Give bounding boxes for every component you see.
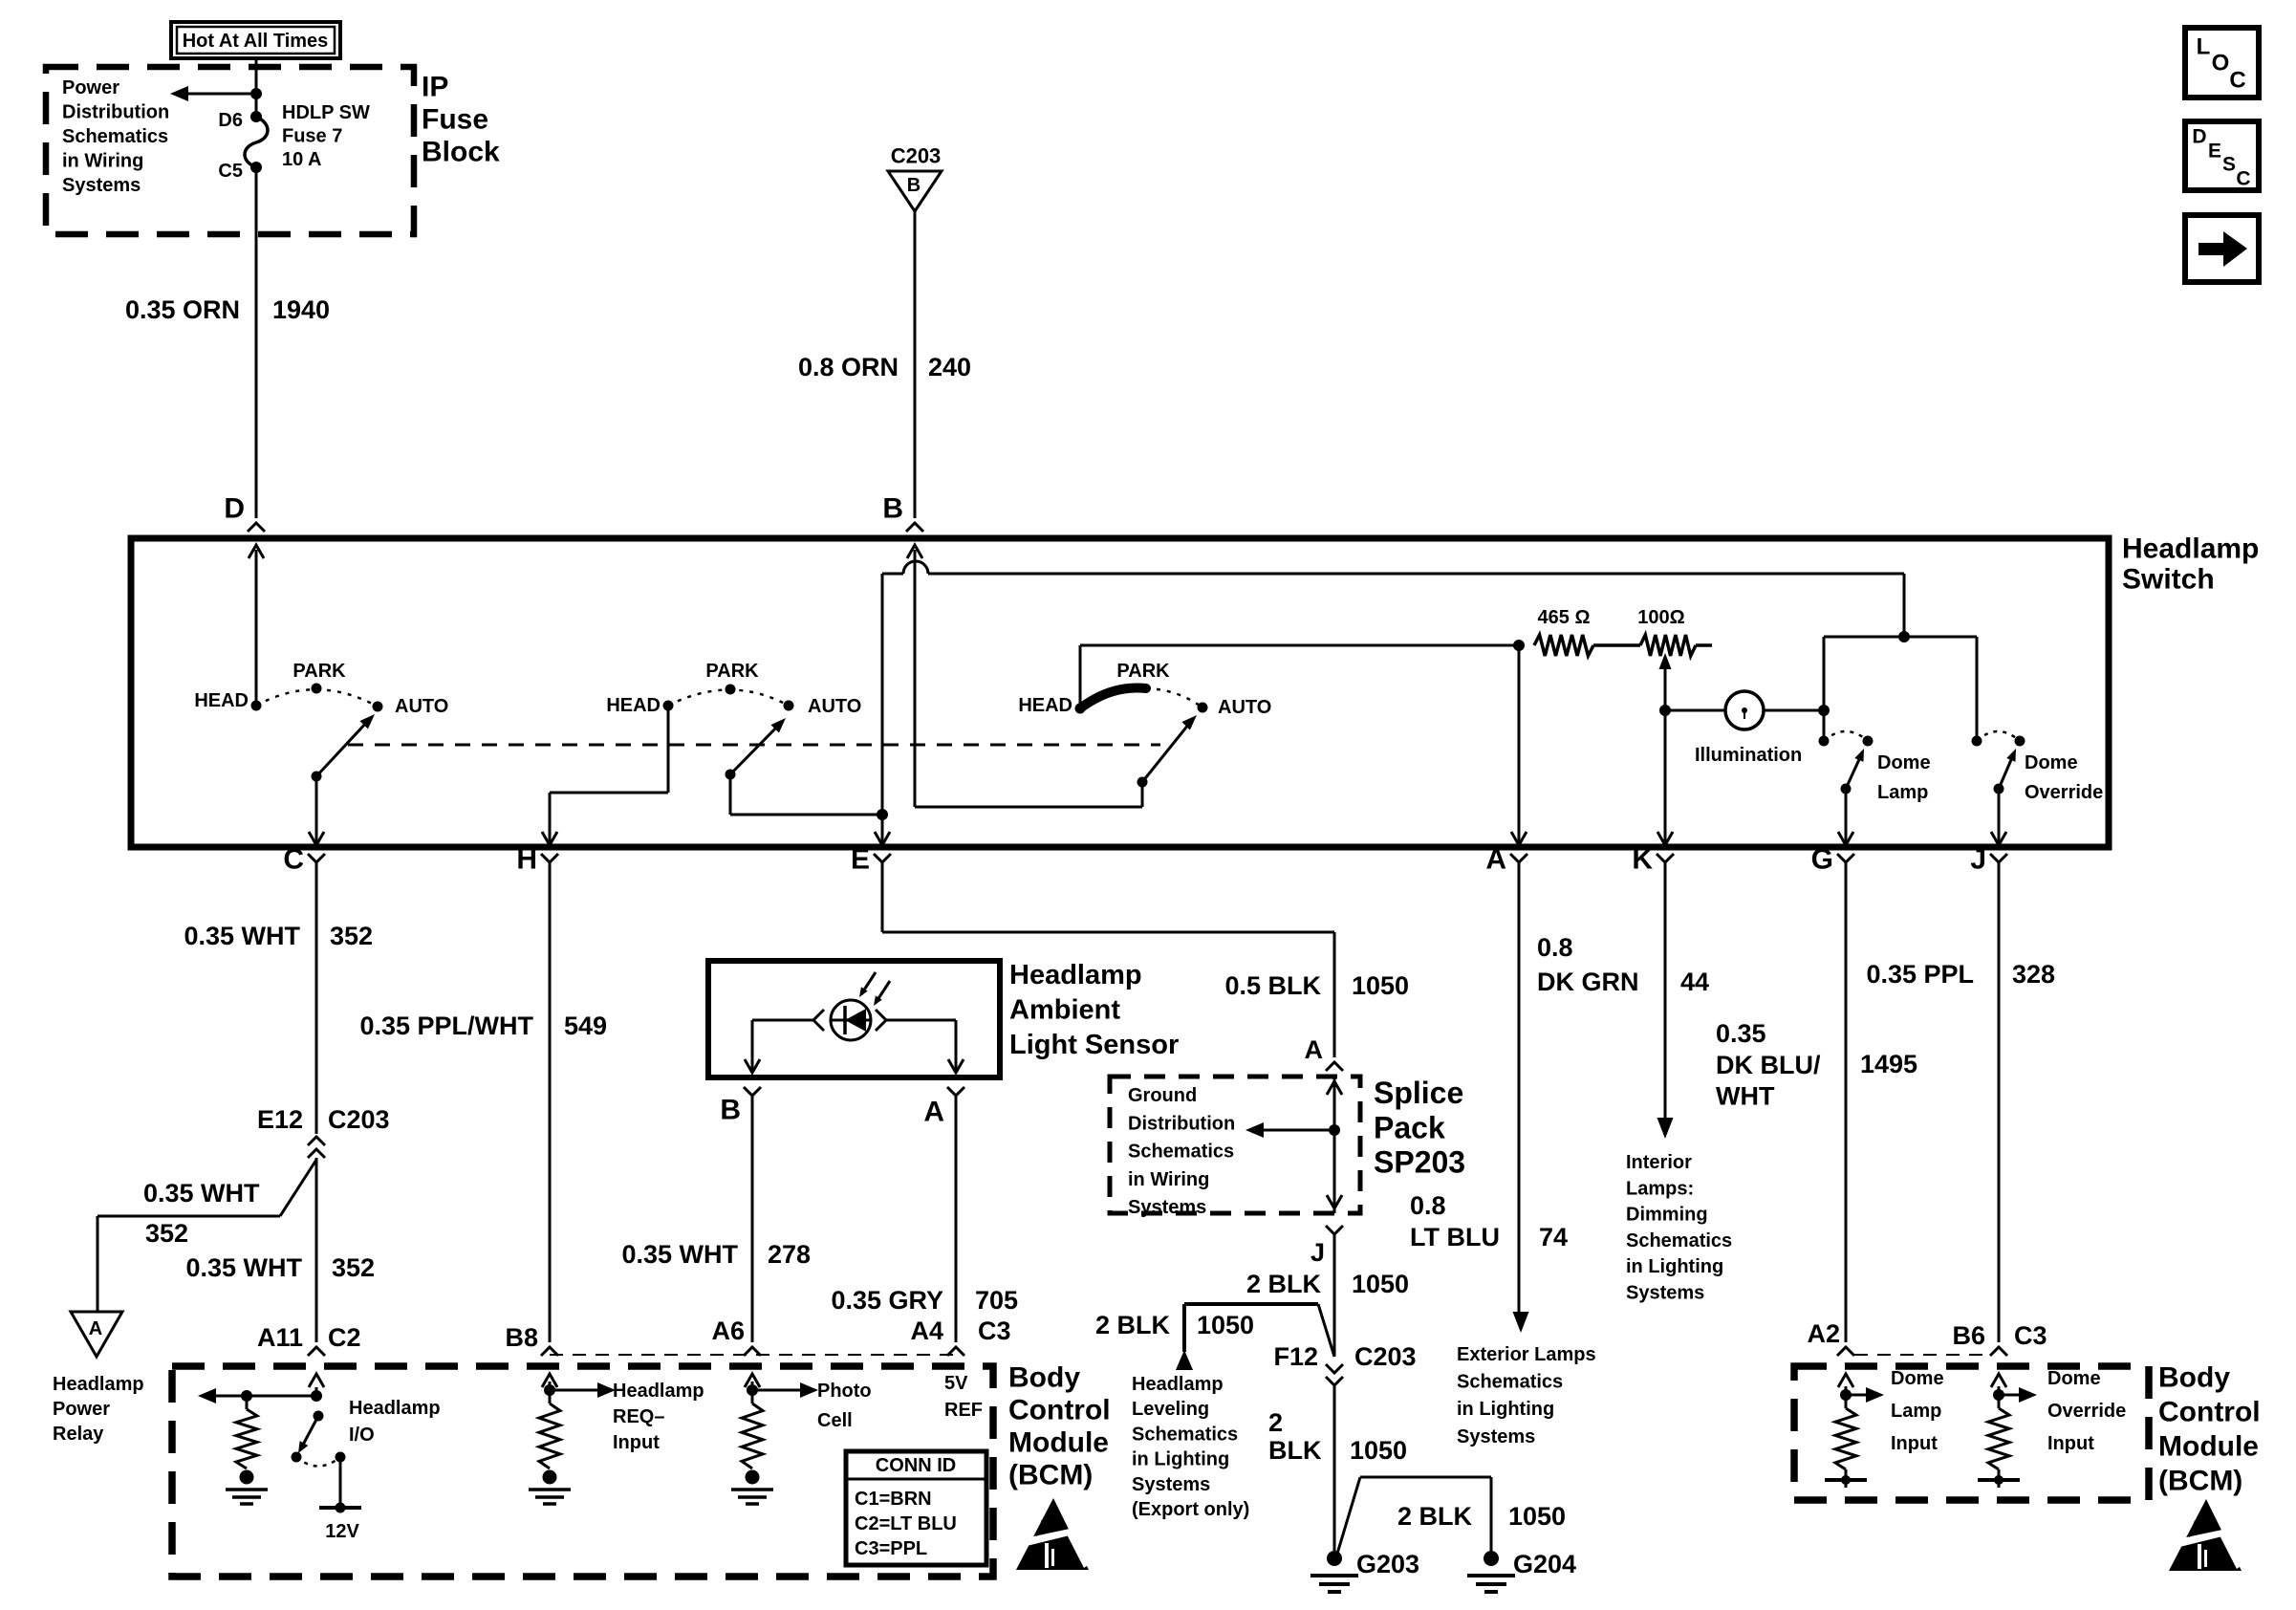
- IP Fuse Block dashed box: [46, 67, 414, 234]
- svg-text:Dome: Dome: [2047, 1368, 2101, 1389]
- junction: pull resistor tap: [241, 1390, 252, 1402]
- svg-text:Fuse: Fuse: [422, 104, 488, 136]
- svg-text:H: H: [516, 844, 537, 876]
- junction: headlamp I/O node: [311, 1390, 322, 1402]
- svg-text:BLK: BLK: [1268, 1436, 1322, 1465]
- pin C of headlamp switch: [308, 854, 325, 862]
- pin H of headlamp switch: [541, 854, 558, 862]
- svg-text:0.35: 0.35: [1716, 1019, 1766, 1048]
- junction: REQ node: [544, 1384, 555, 1396]
- dome override switch right contact: [2015, 736, 2025, 747]
- rheostat wiper arrow: [1664, 662, 1667, 710]
- svg-text:0.35 GRY: 0.35 GRY: [831, 1286, 943, 1315]
- svg-text:Control: Control: [2158, 1397, 2261, 1428]
- junction: pin A tap: [1513, 640, 1525, 651]
- sensor pin B: [744, 1087, 761, 1096]
- resistor 465 ohm: [1534, 635, 1593, 656]
- svg-text:B: B: [907, 175, 921, 196]
- switch 1 position arc: [256, 689, 378, 707]
- wire: pin G drop: [1845, 789, 1848, 843]
- svg-text:D6: D6: [218, 110, 243, 131]
- svg-text:HEAD: HEAD: [194, 690, 249, 711]
- branch: headlamp leveling stub: [1184, 1302, 1318, 1306]
- connector boundary dash line, right: [1854, 1354, 1990, 1356]
- svg-text:AUTO: AUTO: [395, 696, 448, 717]
- dome lamp switch arc: [1824, 731, 1868, 741]
- switch 1 HEAD contact: [251, 701, 262, 711]
- pin B of headlamp switch: [906, 523, 923, 532]
- svg-text:AUTO: AUTO: [808, 696, 861, 717]
- wire 1940: 0.35 ORN from fuse C5 to headlamp switch pin D: [255, 167, 258, 518]
- svg-text:328: 328: [2012, 960, 2055, 989]
- svg-text:352: 352: [330, 922, 373, 950]
- svg-text:Dome: Dome: [1877, 752, 1931, 773]
- svg-text:0.35 WHT: 0.35 WHT: [185, 1253, 302, 1282]
- svg-text:Pack: Pack: [1374, 1110, 1445, 1144]
- junction: wiper / illumination lamp node: [1659, 705, 1671, 716]
- svg-text:Schematics: Schematics: [1128, 1142, 1234, 1163]
- svg-text:0.8: 0.8: [1410, 1191, 1446, 1220]
- svg-text:C5: C5: [218, 161, 243, 182]
- wire 74: 0.8 LT BLU from pin A to exterior lamps: [1518, 862, 1521, 1314]
- headlamp switch SW1 enclosure: [131, 538, 2109, 847]
- svg-text:Switch: Switch: [2122, 564, 2215, 596]
- BCM headlamp REQ input: [549, 1382, 552, 1390]
- pin B6/C3 of BCM: [1990, 1347, 2007, 1356]
- wire 352 continues below C203: [315, 1158, 318, 1342]
- splice bus SP203: [1333, 1077, 1336, 1213]
- svg-text:A: A: [923, 1097, 944, 1128]
- svg-text:1050: 1050: [1352, 971, 1409, 1000]
- svg-text:O: O: [2212, 51, 2230, 76]
- wire: battery feed into fuse block: [255, 58, 258, 117]
- ground G204: [1484, 1551, 1499, 1566]
- svg-text:1940: 1940: [272, 295, 330, 324]
- svg-text:C203: C203: [328, 1105, 390, 1134]
- wire 1495: 0.35 DK BLU/WHT from pin G to BCM A2: [1845, 862, 1848, 1342]
- junction: dome override node: [1993, 1389, 2004, 1401]
- wire: SP203 to ground distribution (arrow left): [1264, 1129, 1334, 1132]
- svg-text:PARK: PARK: [292, 661, 346, 682]
- svg-text:CONN ID: CONN ID: [876, 1455, 956, 1476]
- BCM internal ground (R2): [543, 1470, 557, 1485]
- off-page connector A: headlamp power relay: [71, 1312, 122, 1357]
- headlamp I/O switch: [314, 1411, 324, 1422]
- wire hop over pin B bus: [903, 561, 928, 574]
- wire: switch 1 wiper to pin C: [315, 776, 318, 843]
- wire 1050: 0.5 BLK from pin E: [881, 862, 884, 932]
- svg-text:LT BLU: LT BLU: [1410, 1223, 1500, 1251]
- svg-text:C: C: [283, 844, 304, 876]
- junction: photo cell node: [747, 1384, 758, 1396]
- svg-text:Fuse 7: Fuse 7: [282, 126, 342, 147]
- svg-text:B: B: [882, 493, 903, 525]
- svg-text:0.35 WHT: 0.35 WHT: [143, 1179, 260, 1207]
- wire: pin J drop: [1998, 789, 2001, 843]
- svg-text:352: 352: [145, 1219, 188, 1248]
- pin A11/C2 of BCM: [308, 1347, 325, 1356]
- wire 278: 0.35 WHT sensor B to BCM A6: [751, 1096, 754, 1342]
- 12V source symbol: [339, 1457, 342, 1508]
- svg-text:C3: C3: [2014, 1321, 2047, 1350]
- svg-text:Cell: Cell: [817, 1410, 853, 1431]
- junction: illumination feed node: [1898, 631, 1910, 642]
- svg-text:Interior: Interior: [1626, 1152, 1692, 1173]
- svg-text:Dimming: Dimming: [1626, 1205, 1708, 1226]
- svg-text:S: S: [2222, 154, 2236, 176]
- light rays into photodiode: [861, 972, 876, 994]
- BCM pull resistor R4: [1835, 1408, 1856, 1469]
- svg-text:Dome: Dome: [1891, 1368, 1944, 1389]
- label box: Hot At All Times: [171, 22, 340, 58]
- svg-text:705: 705: [975, 1286, 1018, 1315]
- svg-text:465 Ω: 465 Ω: [1538, 607, 1591, 628]
- svg-text:Schematics: Schematics: [62, 126, 168, 147]
- svg-text:HDLP SW: HDLP SW: [282, 102, 370, 123]
- pin A6 of BCM: [744, 1347, 761, 1356]
- svg-text:DK BLU/: DK BLU/: [1716, 1051, 1821, 1079]
- svg-text:I/O: I/O: [349, 1425, 375, 1446]
- dome override switch arc: [1977, 731, 2020, 741]
- svg-text:1050: 1050: [1350, 1436, 1407, 1465]
- svg-text:F12: F12: [1273, 1342, 1318, 1371]
- icon: DESC box: [2185, 121, 2259, 190]
- switch 2 HEAD contact: [663, 701, 674, 711]
- BCM internal ground (R3): [746, 1470, 760, 1485]
- connector C203 cavity E12 (inline): [308, 1137, 325, 1145]
- pin K of headlamp switch: [1657, 854, 1674, 862]
- svg-text:Lamp: Lamp: [1877, 782, 1928, 803]
- svg-text:(BCM): (BCM): [1008, 1460, 1093, 1491]
- svg-text:in Wiring: in Wiring: [62, 151, 143, 172]
- BCM pull resistor R2: [539, 1403, 560, 1469]
- connector boundary dash line: [550, 1354, 961, 1356]
- svg-text:Systems: Systems: [1626, 1283, 1704, 1304]
- svg-text:Schematics: Schematics: [1132, 1424, 1238, 1445]
- wire: photodiode to sensor pin A: [886, 1019, 956, 1022]
- svg-text:Headlamp: Headlamp: [1132, 1374, 1224, 1395]
- svg-text:D: D: [2192, 126, 2206, 148]
- svg-text:Photo: Photo: [817, 1381, 872, 1402]
- switch 3 wiper (to AUTO): [1137, 777, 1148, 788]
- svg-text:Body: Body: [2158, 1362, 2230, 1394]
- svg-text:E: E: [851, 844, 870, 876]
- svg-text:A2: A2: [1807, 1319, 1840, 1348]
- arrow: Dome Lamp Input: [1846, 1394, 1866, 1397]
- wire 44: 0.8 DK GRN from pin K to interior lamps dimming: [1664, 862, 1667, 1120]
- junction: lamp to dome lamp switch: [1818, 705, 1830, 716]
- wire: to power distribution (arrow left): [188, 93, 256, 96]
- svg-text:Body: Body: [1008, 1362, 1080, 1394]
- svg-text:74: 74: [1539, 1223, 1568, 1251]
- svg-text:Override: Override: [2047, 1401, 2126, 1422]
- svg-text:Lamps:: Lamps:: [1626, 1178, 1694, 1199]
- svg-text:C: C: [2236, 168, 2250, 190]
- svg-text:G204: G204: [1513, 1550, 1576, 1578]
- svg-text:Distribution: Distribution: [1128, 1113, 1235, 1134]
- switch 2 wiper (to AUTO): [726, 770, 736, 780]
- dome lamp switch left contact: [1819, 736, 1830, 747]
- pin A2 of BCM: [1837, 1347, 1854, 1356]
- svg-text:0.35 WHT: 0.35 WHT: [184, 922, 300, 950]
- pin E of headlamp switch: [874, 854, 891, 862]
- svg-text:A: A: [1485, 844, 1506, 876]
- svg-text:Relay: Relay: [53, 1424, 104, 1445]
- icon: LOC box: [2185, 28, 2259, 98]
- svg-text:C1=BRN: C1=BRN: [855, 1489, 932, 1510]
- icon: forward arrow box: [2185, 215, 2259, 282]
- svg-text:HEAD: HEAD: [1018, 695, 1072, 716]
- svg-text:278: 278: [768, 1240, 811, 1269]
- switch 2 AUTO contact: [784, 701, 794, 711]
- wire 352: 0.35 WHT from pin C: [315, 862, 318, 1134]
- svg-text:Headlamp: Headlamp: [349, 1398, 441, 1419]
- sensor pin A: [947, 1087, 964, 1096]
- svg-text:C2: C2: [328, 1323, 361, 1352]
- svg-text:(Export only): (Export only): [1132, 1499, 1249, 1520]
- svg-text:Ambient: Ambient: [1009, 995, 1120, 1026]
- wire: pin E loop to dimmer network: [881, 574, 884, 843]
- svg-text:in Lighting: in Lighting: [1132, 1449, 1229, 1470]
- arrow: Headlamp REQ- Input: [550, 1389, 597, 1392]
- svg-text:Systems: Systems: [1132, 1474, 1210, 1495]
- dome override switch wiper: [1994, 784, 2004, 794]
- body control module (BCM) dashed box, right: [1794, 1366, 2149, 1500]
- pin D6 of fuse block: [250, 111, 262, 122]
- svg-text:Headlamp: Headlamp: [2122, 533, 2259, 565]
- wire: photodiode to sensor pin B: [752, 1019, 813, 1022]
- pin J of headlamp switch: [1990, 854, 2007, 862]
- photodiode connector chevrons: [813, 1010, 824, 1031]
- svg-text:Input: Input: [613, 1432, 660, 1453]
- svg-text:Input: Input: [1891, 1433, 1938, 1454]
- svg-text:B6: B6: [1952, 1321, 1985, 1350]
- pin C5 of fuse block: [250, 162, 262, 173]
- svg-text:12V: 12V: [325, 1521, 359, 1542]
- svg-text:PARK: PARK: [705, 661, 759, 682]
- svg-text:in Wiring: in Wiring: [1128, 1169, 1209, 1190]
- wire: pin A drop: [1518, 645, 1521, 843]
- svg-text:100Ω: 100Ω: [1637, 607, 1684, 628]
- BCM internal ground (R1): [240, 1470, 254, 1485]
- wire: switch 3 wiper to pin B bus: [1141, 782, 1144, 807]
- mechanical linkage (dashed): [348, 744, 1160, 747]
- dome override switch left contact: [1972, 736, 1982, 747]
- body control module (BCM) dashed box, left: [172, 1366, 993, 1577]
- splice pack SP203 dashed box: [1110, 1077, 1360, 1213]
- BCM headlamp I/O input: [315, 1387, 318, 1396]
- svg-text:Power: Power: [62, 77, 119, 98]
- svg-text:C2=LT BLU: C2=LT BLU: [855, 1513, 957, 1534]
- wire 328: 0.35 PPL from pin J to BCM B6: [1998, 862, 2001, 1342]
- svg-text:E: E: [2208, 141, 2221, 163]
- svg-text:A4: A4: [910, 1316, 943, 1345]
- switch 2 PARK contact: [726, 685, 736, 695]
- splice pack pin J: [1326, 1226, 1343, 1234]
- arrow: Photo Cell: [752, 1389, 800, 1392]
- BCM pull resistor R1: [236, 1409, 257, 1469]
- wire: pin B bus inside switch: [914, 550, 917, 807]
- svg-text:Lamp: Lamp: [1891, 1401, 1941, 1422]
- svg-text:2 BLK: 2 BLK: [1095, 1311, 1171, 1339]
- wire: pin K drop: [1664, 710, 1667, 843]
- svg-text:Power: Power: [53, 1399, 110, 1420]
- svg-text:Ground: Ground: [1128, 1085, 1197, 1106]
- svg-text:Headlamp: Headlamp: [613, 1381, 704, 1402]
- svg-text:C3: C3: [978, 1316, 1011, 1345]
- svg-text:Distribution: Distribution: [62, 102, 169, 123]
- svg-text:5V: 5V: [944, 1373, 968, 1394]
- headlamp ambient light sensor enclosure: [708, 961, 1000, 1077]
- svg-text:Splice: Splice: [1374, 1076, 1463, 1110]
- svg-text:Headlamp: Headlamp: [53, 1374, 144, 1395]
- svg-text:DK GRN: DK GRN: [1537, 968, 1639, 996]
- svg-text:Systems: Systems: [1128, 1197, 1206, 1218]
- svg-text:0.5 BLK: 0.5 BLK: [1224, 971, 1321, 1000]
- svg-text:Hot At All Times: Hot At All Times: [183, 31, 329, 52]
- svg-text:1050: 1050: [1352, 1270, 1409, 1298]
- pin B8 of BCM: [541, 1347, 558, 1356]
- wire to BCM internal (arrow left): [216, 1395, 316, 1398]
- svg-text:(BCM): (BCM): [2158, 1466, 2242, 1497]
- svg-text:SP203: SP203: [1374, 1145, 1465, 1180]
- arrow: Dome Override Input: [1999, 1394, 2019, 1397]
- svg-text:Module: Module: [1008, 1427, 1109, 1459]
- wire: switch 2 wiper to pin E node: [729, 774, 732, 815]
- BCM pull resistor R5: [1988, 1408, 2009, 1469]
- svg-text:B8: B8: [505, 1323, 538, 1352]
- BCM chassis ground (R4): [1845, 1469, 1848, 1480]
- junction: dome lamp node: [1840, 1389, 1852, 1401]
- wire: dimmer resistor feed from switch 3 HEAD: [1080, 644, 1519, 647]
- svg-text:1050: 1050: [1508, 1502, 1566, 1531]
- svg-text:in Lighting: in Lighting: [1626, 1256, 1723, 1277]
- switch 3 AUTO contact: [1198, 703, 1208, 713]
- BCM pull resistor R3: [742, 1403, 763, 1469]
- wire 705: 0.35 GRY sensor A to BCM A4: [955, 1096, 958, 1342]
- connector C203 cavity B (triangle): [888, 171, 942, 211]
- svg-text:IP: IP: [422, 72, 448, 103]
- svg-text:Schematics: Schematics: [1626, 1230, 1732, 1251]
- wire 1050: 2 BLK from F12 to ground G203: [1333, 1385, 1336, 1551]
- svg-text:352: 352: [332, 1253, 375, 1282]
- pin G of headlamp switch: [1837, 854, 1854, 862]
- switch 3 HEAD contact: [1075, 704, 1086, 714]
- svg-text:PARK: PARK: [1116, 661, 1170, 682]
- switch 3 wiper arc in PARK (thick): [1080, 687, 1146, 708]
- wire: pin H drop from HEAD contact (switch 2): [667, 706, 670, 793]
- svg-text:0.35 PPL: 0.35 PPL: [1866, 960, 1974, 989]
- svg-text:C203: C203: [1354, 1342, 1417, 1371]
- BCM chassis ground (R5): [1998, 1469, 2001, 1480]
- photodiode D1: [831, 1000, 871, 1040]
- junction: SP203 node: [1329, 1124, 1340, 1136]
- svg-text:D: D: [224, 493, 245, 525]
- svg-text:44: 44: [1680, 968, 1709, 996]
- svg-text:Systems: Systems: [1457, 1426, 1535, 1447]
- svg-text:1495: 1495: [1860, 1050, 1917, 1078]
- svg-text:WHT: WHT: [1716, 1082, 1775, 1111]
- svg-text:J: J: [1970, 844, 1986, 876]
- svg-text:Leveling: Leveling: [1132, 1399, 1209, 1420]
- svg-text:Block: Block: [422, 137, 500, 168]
- BCM dome override input: [1998, 1386, 2001, 1395]
- svg-text:0.35 PPL/WHT: 0.35 PPL/WHT: [359, 1012, 533, 1040]
- pin A of headlamp switch: [1510, 854, 1527, 862]
- splice pack pin A: [1326, 1062, 1343, 1071]
- junction: pin E / wiper 2 node: [877, 809, 888, 820]
- resistor 100 ohm (rheostat): [1640, 635, 1696, 656]
- wire 549: 0.35 PPL/WHT from pin H: [549, 862, 552, 1342]
- pin A4/C3 of BCM: [947, 1347, 964, 1356]
- svg-text:Schematics: Schematics: [1457, 1372, 1563, 1393]
- svg-text:A6: A6: [711, 1316, 745, 1345]
- svg-text:HEAD: HEAD: [606, 695, 661, 716]
- BCM dome lamp input: [1845, 1386, 1848, 1395]
- pin D of headlamp switch: [248, 523, 265, 532]
- svg-text:2 BLK: 2 BLK: [1397, 1502, 1473, 1531]
- branch wire 1050: 2 BLK to ground G204: [1337, 1477, 1360, 1554]
- junction: feed node: [250, 88, 262, 99]
- svg-text:C203: C203: [891, 144, 942, 168]
- switch 3 HEAD contact riser: [1079, 645, 1082, 708]
- svg-text:Module: Module: [2158, 1431, 2259, 1463]
- svg-text:Exterior Lamps: Exterior Lamps: [1457, 1344, 1596, 1365]
- ESD sensitive symbol, right BCM: [2164, 1499, 2243, 1571]
- switch 1 wiper (to AUTO): [312, 772, 322, 782]
- BCM photo cell input: [751, 1382, 754, 1390]
- ground G203: [1327, 1551, 1342, 1566]
- svg-text:Headlamp: Headlamp: [1009, 960, 1142, 990]
- svg-text:L: L: [2197, 34, 2211, 60]
- ESD sensitive symbol, left BCM: [1011, 1498, 1091, 1570]
- svg-text:240: 240: [928, 353, 971, 381]
- svg-text:0.35 ORN: 0.35 ORN: [125, 295, 240, 324]
- svg-text:Illumination: Illumination: [1695, 745, 1802, 766]
- switch 2 position arc: [668, 690, 789, 707]
- svg-text:0.35 WHT: 0.35 WHT: [621, 1240, 738, 1269]
- svg-text:2 BLK: 2 BLK: [1246, 1270, 1322, 1298]
- svg-text:AUTO: AUTO: [1218, 697, 1271, 718]
- svg-text:2: 2: [1268, 1408, 1283, 1437]
- svg-text:G: G: [1811, 844, 1833, 876]
- svg-text:G203: G203: [1356, 1550, 1419, 1578]
- switch 1 AUTO contact: [373, 702, 383, 712]
- switch 1 PARK contact: [312, 684, 322, 694]
- svg-text:C3=PPL: C3=PPL: [855, 1538, 927, 1559]
- illumination lamp: [1665, 709, 1725, 712]
- wire 1050: 2 BLK from SP203 to C203 F12: [1333, 1234, 1336, 1357]
- wire 240: 0.8 ORN from C203 to headlamp switch pin B: [914, 211, 917, 518]
- dome lamp switch right contact: [1863, 736, 1874, 747]
- dome lamp switch wiper: [1841, 784, 1852, 794]
- svg-text:A: A: [89, 1318, 102, 1339]
- svg-text:Input: Input: [2047, 1433, 2094, 1454]
- branch wire 352 to headlamp power relay: [280, 1160, 316, 1216]
- wire: pin D to HEAD contact (switch 1): [255, 550, 258, 701]
- svg-text:Light Sensor: Light Sensor: [1009, 1030, 1179, 1060]
- svg-text:Dome: Dome: [2025, 752, 2078, 773]
- fuse F7: HDLP SW Fuse 7 10 A: [245, 117, 268, 167]
- CONN ID table: [846, 1451, 986, 1565]
- svg-text:E12: E12: [257, 1105, 303, 1134]
- svg-text:A: A: [1305, 1035, 1324, 1064]
- svg-text:549: 549: [564, 1012, 607, 1040]
- svg-text:C: C: [2229, 68, 2245, 94]
- svg-text:A11: A11: [257, 1323, 303, 1352]
- svg-text:Systems: Systems: [62, 175, 141, 196]
- svg-text:REQ–: REQ–: [613, 1406, 664, 1427]
